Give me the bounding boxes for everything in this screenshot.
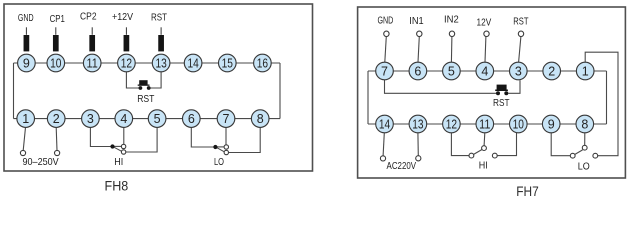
svg-text:RST: RST bbox=[137, 94, 155, 105]
svg-text:11: 11 bbox=[87, 57, 98, 71]
svg-text:8: 8 bbox=[257, 112, 264, 126]
svg-text:GND: GND bbox=[378, 16, 394, 27]
svg-text:11: 11 bbox=[479, 118, 490, 132]
svg-text:4: 4 bbox=[120, 112, 127, 126]
svg-text:GND: GND bbox=[18, 13, 34, 24]
svg-text:1: 1 bbox=[582, 65, 589, 79]
svg-text:3: 3 bbox=[515, 65, 522, 79]
svg-text:IN1: IN1 bbox=[409, 16, 424, 27]
svg-text:12: 12 bbox=[121, 57, 132, 71]
svg-text:RST: RST bbox=[513, 17, 529, 28]
svg-text:2: 2 bbox=[548, 65, 555, 79]
svg-text:8: 8 bbox=[581, 118, 588, 132]
svg-text:12V: 12V bbox=[477, 18, 492, 29]
svg-text:4: 4 bbox=[481, 65, 488, 79]
svg-text:LO: LO bbox=[578, 162, 590, 173]
svg-text:15: 15 bbox=[222, 57, 233, 71]
svg-text:7: 7 bbox=[223, 112, 230, 126]
svg-text:14: 14 bbox=[187, 57, 198, 71]
svg-text:5: 5 bbox=[448, 65, 455, 79]
svg-text:RST: RST bbox=[493, 98, 510, 109]
svg-text:RST: RST bbox=[151, 13, 167, 24]
svg-text:12: 12 bbox=[446, 118, 457, 132]
svg-text:9: 9 bbox=[548, 118, 555, 132]
svg-text:6: 6 bbox=[188, 112, 195, 126]
svg-text:16: 16 bbox=[257, 57, 268, 71]
svg-text:HI: HI bbox=[479, 160, 488, 171]
svg-text:2: 2 bbox=[53, 112, 60, 126]
svg-text:10: 10 bbox=[513, 118, 524, 132]
svg-text:CP2: CP2 bbox=[80, 11, 97, 22]
svg-text:13: 13 bbox=[412, 118, 423, 132]
svg-text:CP1: CP1 bbox=[50, 14, 65, 25]
svg-text:13: 13 bbox=[155, 57, 166, 71]
svg-text:14: 14 bbox=[379, 118, 390, 132]
svg-text:LO: LO bbox=[214, 157, 224, 168]
svg-text:+12V: +12V bbox=[112, 12, 133, 23]
svg-text:AC220V: AC220V bbox=[387, 161, 417, 172]
svg-text:10: 10 bbox=[50, 57, 61, 71]
svg-text:FH7: FH7 bbox=[516, 184, 539, 199]
svg-text:9: 9 bbox=[23, 57, 30, 71]
svg-text:6: 6 bbox=[414, 65, 421, 79]
svg-text:5: 5 bbox=[154, 112, 161, 126]
svg-text:90–250V: 90–250V bbox=[22, 157, 58, 168]
svg-text:IN2: IN2 bbox=[444, 15, 459, 26]
svg-text:1: 1 bbox=[22, 112, 29, 126]
svg-text:FH8: FH8 bbox=[105, 178, 129, 193]
svg-text:7: 7 bbox=[381, 65, 388, 79]
svg-text:HI: HI bbox=[114, 157, 123, 168]
svg-text:3: 3 bbox=[87, 112, 94, 126]
